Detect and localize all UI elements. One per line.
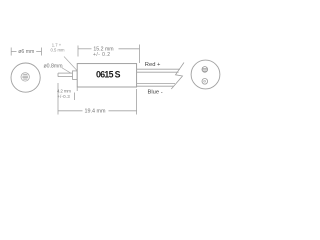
rear terminal top <box>202 67 208 73</box>
wire Red top line <box>137 69 180 72</box>
svg-text:ø0.8mm: ø0.8mm <box>44 63 63 69</box>
wire Blue bottom line <box>137 84 175 87</box>
dimension 15.2 mm +/-0.2 <box>78 45 140 64</box>
svg-text:19.4 mm: 19.4 mm <box>85 108 106 114</box>
svg-text:Blue -: Blue - <box>148 89 163 95</box>
svg-text:0615 S: 0615 S <box>96 70 121 80</box>
svg-text:ø6 mm: ø6 mm <box>18 49 34 55</box>
dimension 19.4 mm <box>58 89 137 115</box>
dimension 4.2 mm +/-0.3 <box>58 83 77 115</box>
rear view outer circle <box>191 60 220 89</box>
svg-text:+/-0.3: +/-0.3 <box>57 94 70 99</box>
pin (ø0.8mm) <box>58 73 73 77</box>
svg-text:0.5 mm: 0.5 mm <box>51 47 65 52</box>
front view aperture detail <box>22 75 28 79</box>
leader line for ø0.8mm <box>62 68 71 73</box>
rear terminal bottom <box>202 79 208 85</box>
pin collar <box>73 71 78 80</box>
svg-text:+/- 0.2: +/- 0.2 <box>93 52 110 58</box>
svg-text:Red +: Red + <box>145 62 161 68</box>
wire break symbol <box>171 63 184 90</box>
dimension ø6 mm <box>11 48 41 56</box>
svg-text:4.2 mm: 4.2 mm <box>57 88 71 93</box>
body rectangle <box>77 64 136 87</box>
leader line for 1.7 dimension <box>64 57 77 71</box>
front view aperture circle <box>21 73 29 81</box>
front view outer circle <box>11 63 40 92</box>
